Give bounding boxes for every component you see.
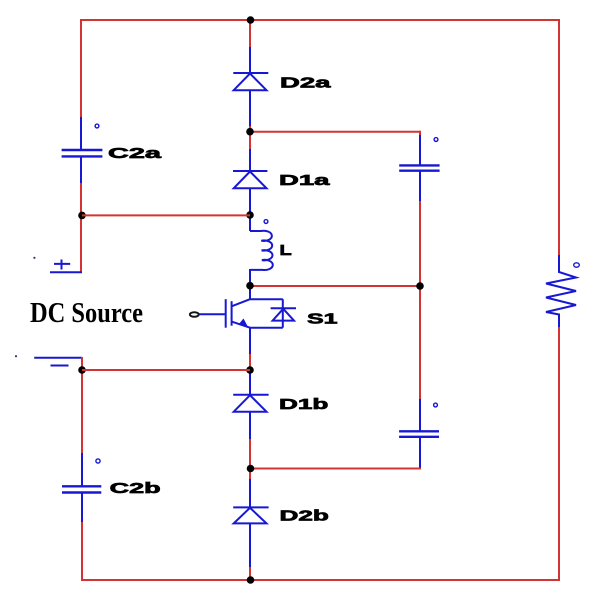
wire node to D1b (blue) [249, 370, 251, 395]
wire inductor to node (blue) [249, 269, 251, 286]
junction node bottom [247, 576, 255, 584]
svg-text:D1b: D1b [279, 396, 328, 413]
wire node L-S1 to right-mid node (red) [250, 285, 420, 287]
wire node to D1a (red then blue) [249, 132, 251, 150]
junction node L-S1 [246, 282, 254, 290]
wire top horizontal [81, 19, 559, 21]
inductor L [250, 231, 273, 270]
junction node C2a bottom [78, 212, 86, 220]
junction node D2a-D1a [246, 128, 254, 136]
wire bottom horizontal [82, 579, 559, 581]
wire right vertical upper [558, 19, 560, 256]
wire S1 emitter down (blue then red) [249, 327, 251, 355]
svg-text:C2b: C2b [110, 480, 161, 497]
degree mark C2b [96, 459, 100, 463]
wire minus plate to node [81, 357, 83, 371]
svg-text:C2a: C2a [108, 145, 162, 162]
wire D1a to node (blue) [249, 188, 251, 215]
wire node to S1 collector (blue) [249, 286, 251, 300]
degree mark DC source top [33, 257, 35, 259]
diode D2b [233, 507, 268, 523]
wire left vertical to + plate [80, 183, 82, 272]
wire node C2a to D1a-L node (red) [82, 214, 250, 216]
junction node D1a-L [246, 211, 254, 219]
transistor S1 (IGBT with antiparallel diode) [198, 299, 296, 328]
wire node DC minus to S1-D1b node (red) [82, 369, 250, 371]
junction node top [247, 16, 255, 24]
wire cap C1a top lead (blue) [419, 135, 421, 165]
svg-text:L: L [280, 242, 292, 259]
svg-text:DC Source: DC Source [30, 298, 143, 329]
wire node D1b-D2b to right cap bottom (red) [250, 468, 421, 470]
diode D1a [233, 171, 267, 188]
wire cap C1b bottom lead (blue) [419, 437, 421, 469]
wire node to inductor (blue) [249, 215, 251, 231]
capacitor C1a (right top) [399, 165, 439, 170]
wire left vertical upper (top corner to C2a) [80, 19, 82, 118]
degree mark C1a [434, 138, 438, 142]
wire C2b bottom lead (blue) [81, 492, 83, 524]
wire C2a bottom lead (blue) [80, 157, 82, 184]
wire D2a top lead (blue) [249, 47, 251, 73]
S1 emitter arrow [239, 319, 248, 327]
wire center top (node to D2a) [249, 20, 251, 48]
wire cap C1b top lead (blue) [419, 399, 421, 431]
svg-text:S1: S1 [307, 311, 338, 328]
junction node DC minus [78, 366, 86, 374]
capacitor C1b (right bottom) [399, 431, 439, 437]
wire left vertical to C2b [81, 370, 83, 455]
wire node D2a-D1a to right cap top (red) [250, 131, 420, 133]
resistor R load [546, 255, 576, 328]
degree mark DC source bottom [15, 355, 17, 357]
wire cap C1a bottom lead (blue) [419, 171, 421, 202]
capacitor C2a [62, 150, 103, 156]
wire node to D2b (blue) [249, 468, 251, 480]
S1 gate terminal circle [190, 312, 199, 317]
DC source minus plate [34, 357, 82, 359]
wire left vertical lower to bottom corner [81, 522, 83, 581]
degree mark C2a [95, 124, 99, 128]
wire C2b top lead (blue) [81, 453, 83, 486]
degree mark L [264, 220, 268, 224]
junction node S1-D1b [246, 366, 254, 374]
wire D2b to bottom node (blue then red) [249, 523, 251, 568]
DC source plus sign [54, 260, 70, 270]
wire right vertical lower [558, 327, 560, 581]
capacitor C2b [62, 486, 101, 492]
wire D1b to node (blue) [249, 411, 251, 440]
wire right-mid column upper (red corner) [419, 131, 421, 136]
junction node right-mid [416, 282, 424, 290]
diode D2a [233, 73, 268, 90]
wire right-mid column lower (red) [419, 285, 421, 400]
DC source minus sign [51, 365, 69, 367]
degree mark C1b [434, 403, 438, 407]
svg-text:D1a: D1a [279, 172, 331, 189]
diode D1b [233, 395, 268, 412]
svg-text:D2a: D2a [280, 74, 332, 91]
resistor degree mark [574, 263, 580, 267]
wire D2a to node (blue then red) [249, 90, 251, 127]
wire C2a top lead (blue) [80, 117, 82, 149]
wire right-mid column middle (red) [419, 201, 421, 287]
DC source plus plate [50, 271, 82, 273]
svg-text:D2b: D2b [280, 508, 329, 525]
junction node D1b-D2b [247, 465, 255, 473]
